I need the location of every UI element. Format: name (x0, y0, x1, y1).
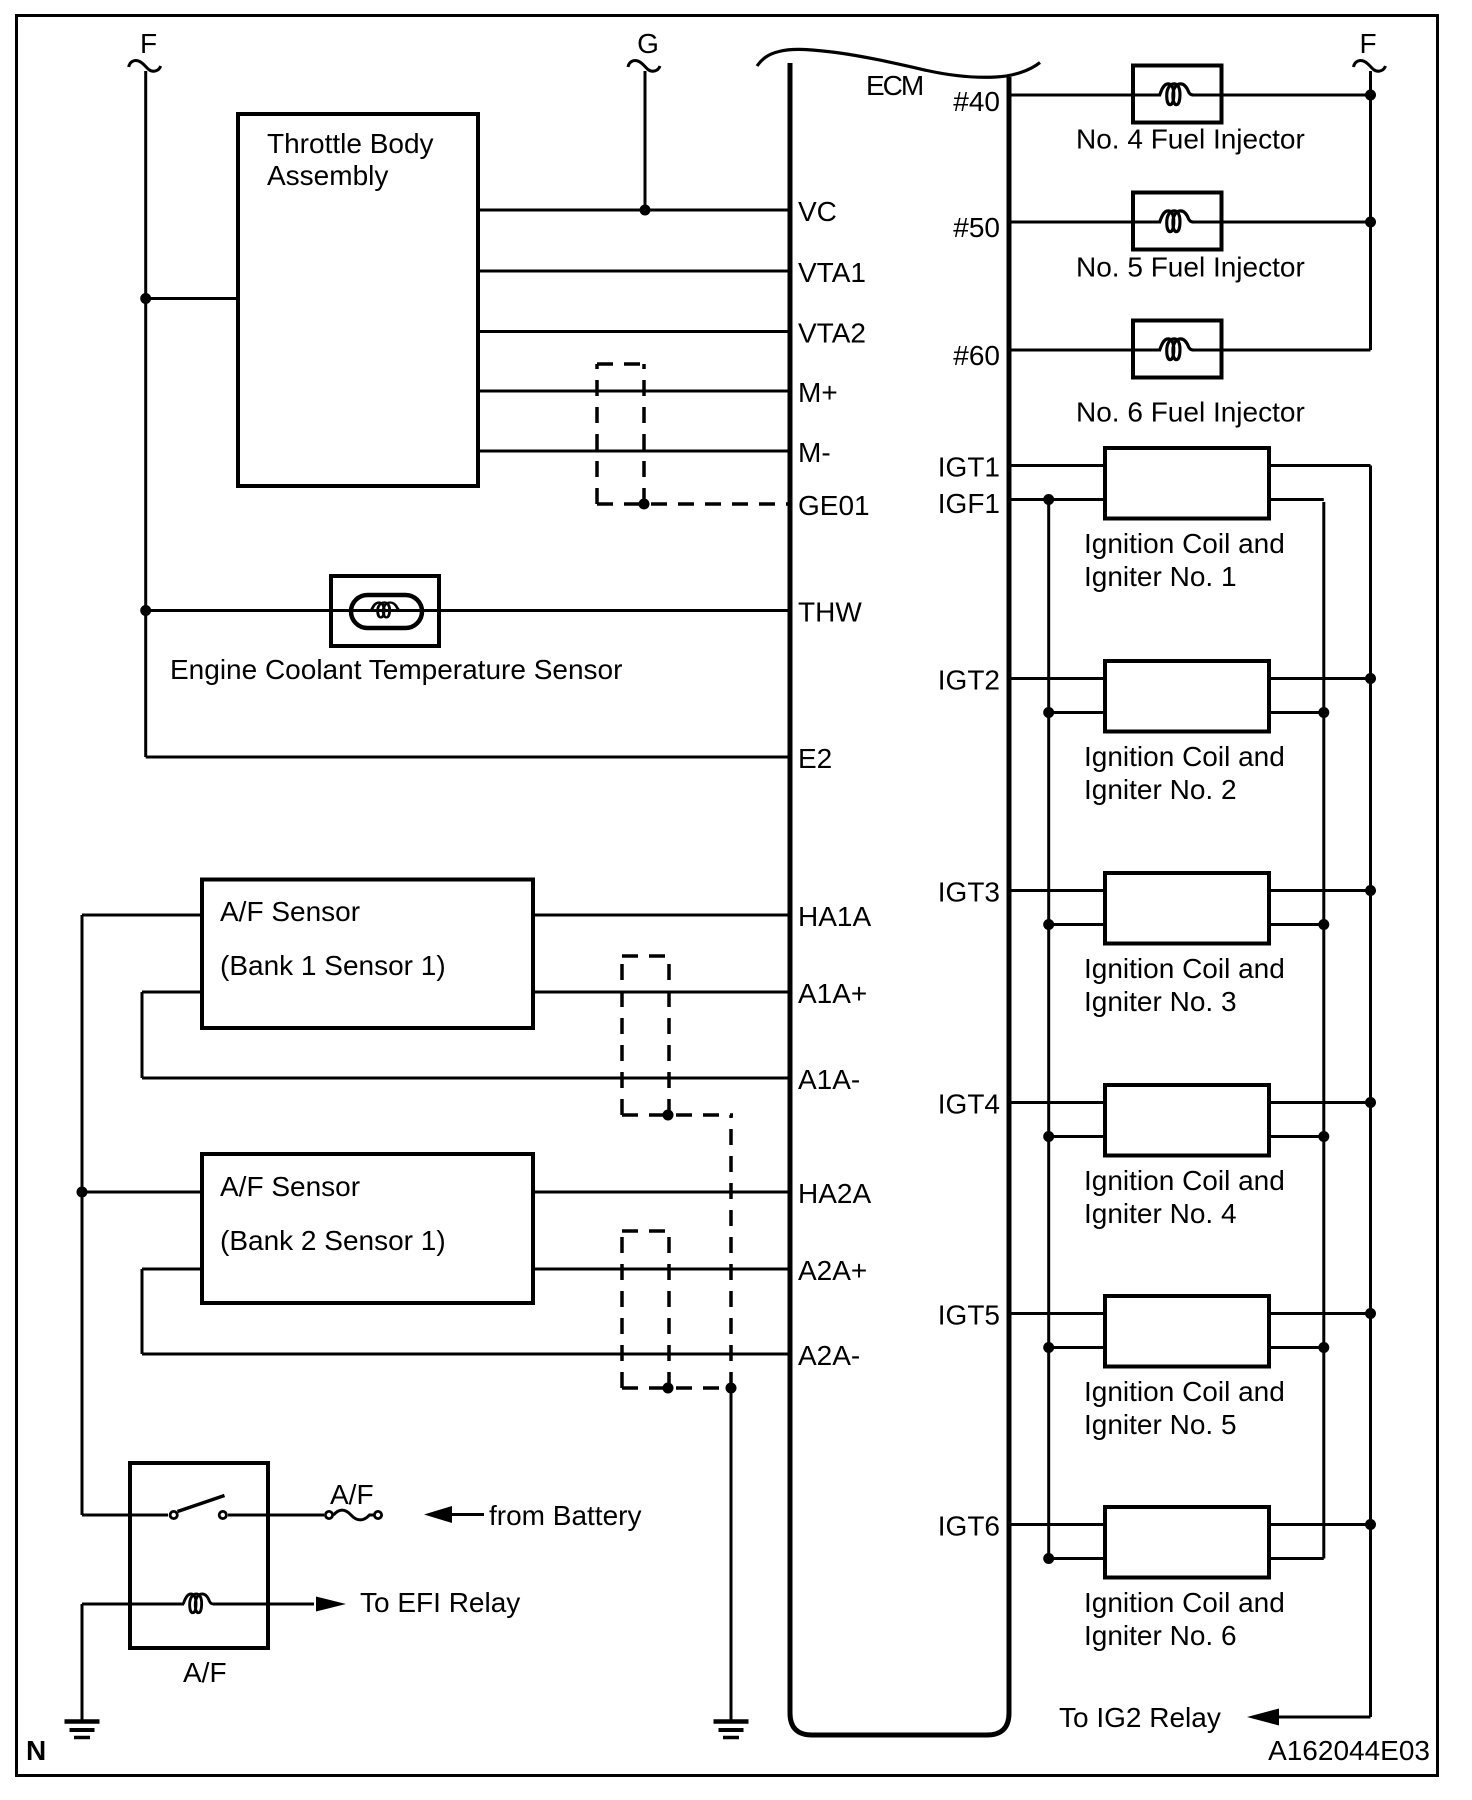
junction dot IGF bus (1043, 919, 1054, 930)
svg-text:IGT3: IGT3 (938, 877, 1000, 908)
wire igniter No. 1 supply (1269, 464, 1371, 467)
A/F sensor bank 2 block (202, 1154, 533, 1303)
shield (A2A wires) dashed screen (622, 1229, 669, 1233)
svg-text:A/F: A/F (183, 1657, 227, 1688)
svg-text:Ignition Coil and: Ignition Coil and (1084, 1376, 1285, 1407)
junction dot supply bus (1365, 1097, 1376, 1108)
wire igniter No. 5 supply (1269, 1312, 1371, 1315)
wire #50 (1009, 221, 1161, 224)
svg-text:To IG2 Relay: To IG2 Relay (1059, 1702, 1221, 1733)
svg-text:G: G (637, 28, 659, 59)
junction dot ground bus (1318, 1131, 1329, 1142)
svg-text:No. 6 Fuel Injector: No. 6 Fuel Injector (1076, 397, 1305, 428)
svg-text:A1A-: A1A- (798, 1064, 860, 1095)
ignition coil and igniter No. 3 block (1105, 873, 1269, 944)
wire F left bus (144, 71, 147, 757)
wire G drop (644, 71, 647, 210)
svg-text:M-: M- (798, 437, 831, 468)
svg-text:Igniter No. 3: Igniter No. 3 (1084, 986, 1237, 1017)
svg-text:Ignition Coil and: Ignition Coil and (1084, 741, 1285, 772)
svg-text:Igniter No. 6: Igniter No. 6 (1084, 1620, 1237, 1651)
wire igniter No. 3 supply (1269, 889, 1371, 892)
wire A1A- to ECM (142, 1077, 791, 1080)
wire igniter No. 2 lower-left (1049, 711, 1105, 714)
wire igniter No. 1 lower-left (1009, 498, 1105, 501)
svg-text:No. 4 Fuel Injector: No. 4 Fuel Injector (1076, 124, 1305, 155)
svg-text:THW: THW (798, 597, 862, 628)
wire #60 (1009, 349, 1161, 352)
throttle body assembly block (238, 114, 478, 486)
wire A2A- to ECM (142, 1353, 791, 1356)
svg-text:Engine Coolant Temperature Sen: Engine Coolant Temperature Sensor (170, 654, 622, 685)
wire HA1A to ECM (533, 914, 791, 917)
svg-text:Ignition Coil and: Ignition Coil and (1084, 1587, 1285, 1618)
ground (relay coil) (65, 1719, 100, 1724)
relay contact (switch) (228, 1514, 324, 1517)
wire E2 (146, 756, 791, 759)
svg-text:A2A-: A2A- (798, 1340, 860, 1371)
wire IG2 supply bus (1369, 466, 1372, 1718)
wire #40 (1009, 94, 1161, 97)
wire HA2A to ECM (533, 1191, 791, 1194)
wire M+ (478, 390, 791, 393)
svg-text:VTA1: VTA1 (798, 257, 866, 288)
wire igniter ground bus (1322, 502, 1325, 1559)
svg-text:(Bank 2 Sensor 1): (Bank 2 Sensor 1) (220, 1225, 446, 1256)
svg-text:Igniter No. 4: Igniter No. 4 (1084, 1198, 1237, 1229)
svg-text:F: F (1359, 28, 1376, 59)
ECM connector body (790, 63, 1009, 1735)
junction dot shield to GE01 (639, 499, 650, 510)
arrow from battery (424, 1506, 452, 1523)
fuel injector No. 5 (1133, 193, 1222, 250)
junction dot ground bus (1318, 919, 1329, 930)
junction dot shield bus (726, 1383, 737, 1394)
wire A2A+ to ECM (533, 1268, 791, 1271)
wire shield ground drop (730, 1388, 733, 1721)
svg-text:IGT4: IGT4 (938, 1089, 1000, 1120)
svg-text:No. 5 Fuel Injector: No. 5 Fuel Injector (1076, 252, 1305, 283)
wire igniter No. 3 lower-left (1049, 923, 1105, 926)
svg-text:E2: E2 (798, 743, 832, 774)
wire IGT2 (1009, 677, 1105, 680)
wire relay coil ground (81, 1604, 84, 1721)
junction dot IGF bus (1043, 707, 1054, 718)
svg-text:A/F Sensor: A/F Sensor (220, 1171, 360, 1202)
svg-text:GE01: GE01 (798, 490, 870, 521)
junction dot shield2 drain (663, 1383, 674, 1394)
svg-text:Ignition Coil and: Ignition Coil and (1084, 953, 1285, 984)
svg-text:Ignition Coil and: Ignition Coil and (1084, 528, 1285, 559)
junction dot supply bus (1365, 885, 1376, 896)
shield (throttle motor wires) dashed screen (597, 362, 644, 366)
svg-text:VTA2: VTA2 (798, 318, 866, 349)
junction dot ground bus (1318, 707, 1329, 718)
wire heater bus to relay contact (82, 1514, 168, 1517)
ignition coil and igniter No. 1 block (1105, 448, 1269, 519)
svg-text:from Battery: from Battery (489, 1500, 641, 1531)
fuel injector No. 6 (1133, 321, 1222, 378)
relay coil A/F (82, 1603, 184, 1606)
wire HA2A left segment (82, 1191, 202, 1194)
fuel injector No. 4 (1133, 66, 1222, 123)
svg-text:Igniter No. 2: Igniter No. 2 (1084, 774, 1237, 805)
svg-text:#50: #50 (953, 212, 1000, 243)
svg-text:Igniter No. 1: Igniter No. 1 (1084, 561, 1237, 592)
wire GE01 shield drain (dashed) (597, 502, 791, 506)
shield (A1A wires) dashed screen (622, 954, 669, 958)
wire IGT4 (1009, 1101, 1105, 1104)
svg-text:HA2A: HA2A (798, 1178, 871, 1209)
junction dot G to VC (640, 205, 651, 216)
junction dot shield1 drain (663, 1110, 674, 1121)
wire A1A- loop (bank 1) (142, 991, 202, 994)
svg-text:IGT1: IGT1 (938, 452, 1000, 483)
wire IGT1 (1009, 464, 1105, 467)
svg-text:A1A+: A1A+ (798, 978, 867, 1009)
wire M- (478, 450, 791, 453)
wire igniter No. 5 lower-left (1049, 1346, 1105, 1349)
wire from battery (452, 1513, 484, 1516)
wire to IG2 relay (1279, 1716, 1371, 1719)
ignition coil and igniter No. 2 block (1105, 661, 1269, 732)
junction dot THW/ECT feed (140, 605, 151, 616)
svg-text:IGT2: IGT2 (938, 665, 1000, 696)
svg-text:A162044E03: A162044E03 (1268, 1735, 1430, 1766)
wire VC (478, 209, 791, 212)
A/F sensor bank 1 block (202, 880, 533, 1029)
wire injector feed bus (1369, 71, 1372, 350)
junction dot IGF bus (1043, 1342, 1054, 1353)
wire VTA1 (478, 270, 791, 273)
svg-text:(Bank 1 Sensor 1): (Bank 1 Sensor 1) (220, 950, 446, 981)
junction dot throttle feed (140, 293, 151, 304)
wire igniter No. 6 ground (1269, 1557, 1324, 1560)
wire igniter No. 4 ground (1269, 1135, 1324, 1138)
junction dot ground bus (1318, 1342, 1329, 1353)
junction dot IGF bus (1043, 1553, 1054, 1564)
wire igniter No. 2 ground (1269, 711, 1324, 714)
wire IGT5 (1009, 1312, 1105, 1315)
wire igniter No. 6 supply (1269, 1523, 1371, 1526)
wire igniter No. 6 lower-left (1049, 1557, 1105, 1560)
svg-text:#60: #60 (953, 340, 1000, 371)
wire igniter No. 5 ground (1269, 1346, 1324, 1349)
engine coolant temperature sensor (thermistor in housing) (331, 576, 439, 646)
svg-text:Ignition Coil and: Ignition Coil and (1084, 1165, 1285, 1196)
junction dot supply bus (1365, 1519, 1376, 1530)
wire igniter No. 1 ground (1269, 498, 1324, 501)
junction dot IGF1 (1043, 494, 1054, 505)
junction dot heater bank2 (77, 1187, 88, 1198)
relay A/F block (130, 1463, 268, 1648)
svg-text:IGT6: IGT6 (938, 1511, 1000, 1542)
arrow to IG2 relay (1247, 1709, 1279, 1726)
svg-text:IGF1: IGF1 (938, 488, 1000, 519)
wire igniter No. 3 ground (1269, 923, 1324, 926)
wire IGF feedback bus (1047, 502, 1050, 1559)
ground (shield) (714, 1719, 749, 1724)
wire IGT6 (1009, 1523, 1105, 1526)
junction dot injector feed (1365, 217, 1376, 228)
svg-text:A/F Sensor: A/F Sensor (220, 896, 360, 927)
wire HA1A left segment (82, 914, 202, 917)
wire A2A- loop (bank 2) (142, 1268, 202, 1271)
svg-text:M+: M+ (798, 377, 838, 408)
svg-text:F: F (140, 28, 157, 59)
junction dot injector feed (1365, 90, 1376, 101)
svg-text:HA1A: HA1A (798, 901, 871, 932)
ignition coil and igniter No. 5 block (1105, 1296, 1269, 1367)
junction dot supply bus (1365, 1308, 1376, 1319)
svg-text:A/F: A/F (330, 1479, 374, 1510)
wire igniter No. 2 supply (1269, 677, 1371, 680)
wire A1A+ to ECM (533, 991, 791, 994)
wire VTA2 (478, 330, 791, 333)
svg-text:IGT5: IGT5 (938, 1300, 1000, 1331)
ECM torn top edge (757, 49, 1040, 77)
wire throttle body supply (146, 297, 238, 300)
wire THW (146, 609, 791, 612)
svg-text:Assembly: Assembly (267, 160, 388, 191)
wire igniter No. 4 supply (1269, 1101, 1371, 1104)
svg-text:N: N (26, 1735, 46, 1766)
svg-text:Throttle Body: Throttle Body (267, 128, 434, 159)
wire shield drain (dashed vertical) (729, 1115, 733, 1388)
ignition coil and igniter No. 4 block (1105, 1085, 1269, 1156)
svg-text:ECM: ECM (866, 70, 923, 101)
wire igniter No. 4 lower-left (1049, 1135, 1105, 1138)
wire IGT3 (1009, 889, 1105, 892)
ignition coil and igniter No. 6 block (1105, 1507, 1269, 1578)
wire A/F heater bus (vertical) (81, 915, 84, 1515)
junction dot supply bus (1365, 673, 1376, 684)
svg-text:VC: VC (798, 196, 837, 227)
junction dot IGF bus (1043, 1131, 1054, 1142)
arrow to EFI relay (316, 1597, 346, 1612)
svg-text:To EFI Relay: To EFI Relay (360, 1587, 520, 1618)
svg-text:Igniter No. 5: Igniter No. 5 (1084, 1409, 1237, 1440)
svg-text:#40: #40 (953, 86, 1000, 117)
svg-text:A2A+: A2A+ (798, 1255, 867, 1286)
